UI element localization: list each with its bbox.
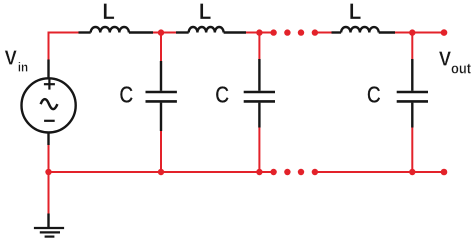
svg-text:L: L [199,0,211,24]
svg-text:C: C [215,81,229,108]
svg-text:C: C [120,81,134,108]
svg-text:out: out [451,61,471,77]
svg-text:C: C [367,81,381,108]
svg-text:L: L [102,0,114,24]
svg-text:L: L [349,0,361,24]
svg-text:in: in [18,60,28,75]
svg-text:V: V [439,48,451,71]
svg-text:V: V [5,47,17,70]
